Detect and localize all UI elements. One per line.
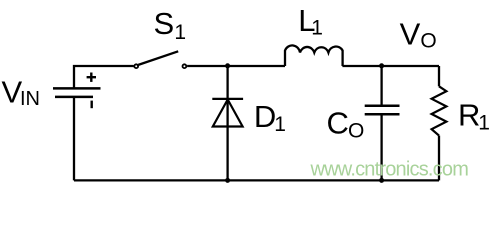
svg-text:C: C: [327, 105, 349, 140]
node: diode bottom junction: [225, 178, 230, 183]
wire: diode branch vertical: [226, 66, 228, 180]
wire: top rail left segment (battery to switch): [74, 66, 134, 88]
switch S1 left terminal circle: [134, 64, 138, 68]
svg-text:IN: IN: [20, 88, 40, 110]
inductor L1 coil: [285, 45, 343, 66]
node: capacitor top junction: [379, 63, 384, 68]
svg-text:V: V: [400, 16, 421, 51]
svg-text:www.cntronics.com: www.cntronics.com: [310, 159, 469, 181]
wire: capacitor branch top: [380, 66, 382, 106]
svg-text:O: O: [348, 120, 364, 143]
svg-text:1: 1: [174, 21, 186, 44]
svg-text:1: 1: [274, 113, 286, 136]
resistor R1 zigzag: [432, 86, 447, 135]
capacitor C_O plates: [365, 106, 400, 115]
node: capacitor bottom junction: [379, 178, 384, 183]
svg-text:S: S: [154, 6, 175, 41]
wire: top rail middle segment (switch to inductor): [187, 65, 285, 67]
battery plus sign: [87, 73, 96, 82]
switch S1 right terminal circle: [183, 64, 187, 68]
wire: top rail right segment (inductor to right corner): [342, 65, 439, 67]
diode D1 cathode bar: [212, 98, 243, 100]
switch S1 blade: [138, 51, 178, 65]
svg-text:1: 1: [311, 17, 323, 40]
node: diode top junction: [225, 63, 230, 68]
wire: resistor branch top: [438, 66, 440, 86]
battery V_IN plates: [53, 88, 101, 97]
wire: capacitor branch bottom: [380, 114, 382, 180]
wire: resistor branch bottom: [438, 136, 440, 181]
svg-text:R: R: [458, 97, 480, 132]
svg-text:1: 1: [478, 111, 490, 134]
svg-text:O: O: [420, 30, 436, 53]
wire: left branch below battery: [73, 97, 75, 180]
diode D1 triangle: [213, 100, 243, 127]
wire: bottom rail: [74, 179, 439, 181]
svg-text:D: D: [254, 99, 276, 134]
battery minus tick: [90, 101, 92, 109]
